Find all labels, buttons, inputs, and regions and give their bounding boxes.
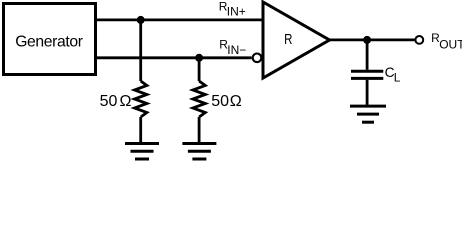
wire: resistor R2 to ground	[198, 117, 201, 144]
node junction dot on R_IN- wire	[195, 54, 203, 62]
svg-text:Ω: Ω	[230, 93, 242, 110]
generator box	[4, 4, 96, 75]
svg-text:Generator: Generator	[15, 34, 83, 51]
svg-text:50: 50	[211, 93, 229, 110]
wire top: generator to buffer R_IN+	[95, 18, 263, 21]
resistor R1 zigzag	[135, 81, 147, 117]
wire: junction to resistor R1	[139, 20, 142, 81]
wire: capacitor CL to ground	[366, 80, 369, 106]
svg-text:50: 50	[100, 93, 118, 110]
svg-text:Ω: Ω	[120, 93, 132, 110]
node junction dot on R_IN+ wire	[137, 16, 145, 24]
svg-text:R: R	[284, 31, 292, 48]
ground under CL	[350, 106, 386, 122]
wire: resistor R1 to ground	[139, 117, 142, 144]
svg-text:IN+: IN+	[227, 5, 246, 19]
wire: junction to resistor R2	[198, 58, 201, 81]
svg-text:OUT: OUT	[439, 38, 462, 52]
resistor R2 zigzag	[193, 81, 205, 117]
output terminal (open circle)	[415, 36, 423, 44]
wire: output junction down to capacitor CL	[366, 40, 369, 70]
ground under R1	[125, 144, 159, 160]
node junction dot at output	[363, 36, 371, 44]
svg-text:L: L	[394, 71, 401, 85]
capacitor CL plates	[351, 71, 383, 78]
buffer amplifier U1 (triangle)	[263, 2, 330, 78]
wire bottom: generator to buffer R_IN-	[95, 56, 252, 59]
inverting input bubble	[253, 54, 262, 63]
ground under R2	[182, 144, 216, 160]
svg-text:IN−: IN−	[227, 43, 246, 57]
wire: buffer output	[328, 39, 415, 42]
